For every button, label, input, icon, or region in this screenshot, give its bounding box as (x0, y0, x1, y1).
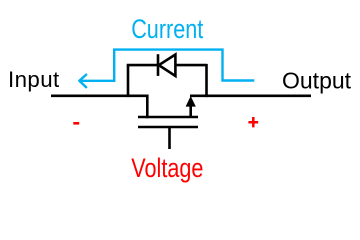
label Current (cyan current-path annotation) (131, 15, 203, 45)
wire body-diode loop left leg (127, 65, 130, 97)
wire input segment (left lead into drain of Q1) (51, 96, 147, 118)
node Output label (282, 68, 352, 94)
wire source lead with up-arrow of Q1 (186, 96, 196, 117)
polarity minus (red, input side) (73, 122, 79, 125)
wire gate stem (to Voltage) (168, 127, 171, 149)
diode D1 triangle (anode, pointing left) (159, 55, 176, 77)
svg-text:Current: Current (131, 15, 203, 45)
label Voltage (red, gate drive) (131, 154, 203, 184)
current direction arrowhead (cyan, pointing left toward Input) (79, 75, 86, 88)
svg-text:Voltage: Voltage (131, 154, 203, 184)
transistor Q1 channel line (top plate) (138, 116, 198, 119)
wire current-path (cyan annotation polyline) (81, 50, 255, 81)
svg-text:Output: Output (282, 68, 352, 94)
wire body-diode loop right leg (205, 64, 208, 97)
diode D1 cathode bar (157, 54, 160, 76)
wire body-diode loop top-right segment (175, 64, 206, 67)
transistor Q1 gate line (bottom plate) (138, 126, 198, 129)
node Input label (8, 67, 60, 92)
svg-text:Input: Input (8, 67, 60, 92)
wire output segment (right lead from source of Q1) (190, 95, 311, 98)
polarity plus (red, output side) (248, 117, 258, 127)
wire body-diode loop top-left segment (127, 64, 158, 67)
